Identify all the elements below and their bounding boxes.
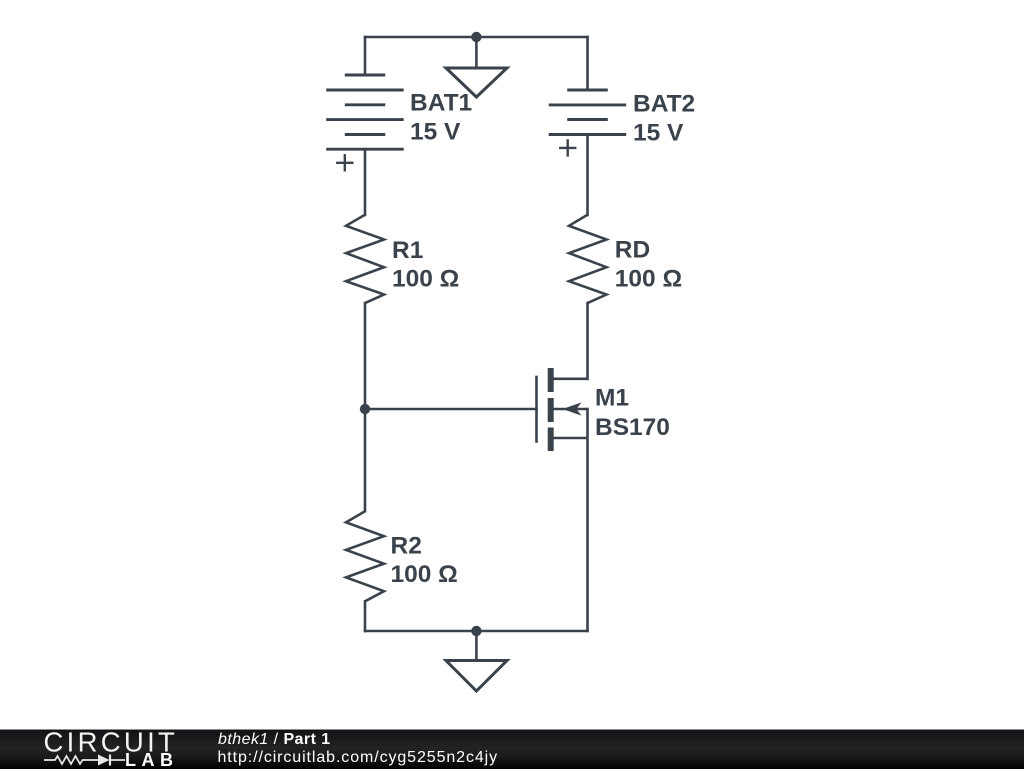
resistor RD xyxy=(569,215,607,303)
footer bar xyxy=(0,729,1024,769)
wire BAT2 top stem xyxy=(586,37,589,89)
node dot top xyxy=(471,32,481,42)
wire top ground stem xyxy=(475,37,478,67)
M1 source lead xyxy=(553,437,588,440)
wire M1 source down to bottom rail xyxy=(586,409,589,631)
svg-text:R1: R1 xyxy=(392,237,423,264)
svg-text:100 Ω: 100 Ω xyxy=(391,561,458,588)
svg-text:BAT2: BAT2 xyxy=(633,91,695,118)
CircuitLab logo resistor-diode squiggle xyxy=(44,753,128,767)
wire bottom ground stem xyxy=(475,631,478,659)
svg-text:R2: R2 xyxy=(391,533,422,560)
wire BAT2 to RD xyxy=(586,135,589,216)
resistor R2 xyxy=(346,511,384,601)
M1 gate bar xyxy=(535,376,538,443)
BAT2 plus sign xyxy=(559,139,576,156)
node dot bottom xyxy=(471,626,481,636)
svg-text:RD: RD xyxy=(615,236,650,263)
svg-text:BAT1: BAT1 xyxy=(410,90,472,117)
svg-text:M1: M1 xyxy=(595,385,629,412)
BAT1 plus sign xyxy=(336,154,353,171)
resistor R1 xyxy=(346,215,384,303)
CircuitLab logo wordmark CIRCUIT xyxy=(0,730,220,769)
svg-text:BS170: BS170 xyxy=(595,414,670,441)
svg-text:100 Ω: 100 Ω xyxy=(392,265,459,292)
labels xyxy=(391,90,696,589)
wire RD to M1 drain xyxy=(586,303,589,379)
wire R2 to bottom rail xyxy=(364,601,367,631)
M1 drain lead xyxy=(553,377,588,380)
wire BAT1 top stem xyxy=(364,37,367,74)
battery BAT2 xyxy=(549,90,627,135)
wire top rail xyxy=(365,36,588,39)
transistor M1 (NMOS) xyxy=(537,368,588,451)
M1 channel segments xyxy=(548,368,554,451)
svg-text:15 V: 15 V xyxy=(410,118,461,145)
M1 body arrow xyxy=(563,402,582,415)
wire bottom rail xyxy=(365,630,588,633)
footer title text xyxy=(218,731,331,749)
node dot gate xyxy=(360,404,370,414)
svg-text:15 V: 15 V xyxy=(633,119,684,146)
M1 body lead xyxy=(553,408,588,411)
CircuitLab logo wordmark LAB xyxy=(125,750,179,771)
battery BAT1 xyxy=(326,75,404,149)
footer url text xyxy=(218,749,499,767)
svg-text:100 Ω: 100 Ω xyxy=(615,265,682,292)
wire BAT1 to R1 xyxy=(364,149,367,215)
wire gate from node to M1 xyxy=(365,408,537,411)
wire R1 to node to R2 xyxy=(364,303,367,511)
top ground symbol xyxy=(446,68,507,97)
bottom ground symbol xyxy=(446,661,507,692)
